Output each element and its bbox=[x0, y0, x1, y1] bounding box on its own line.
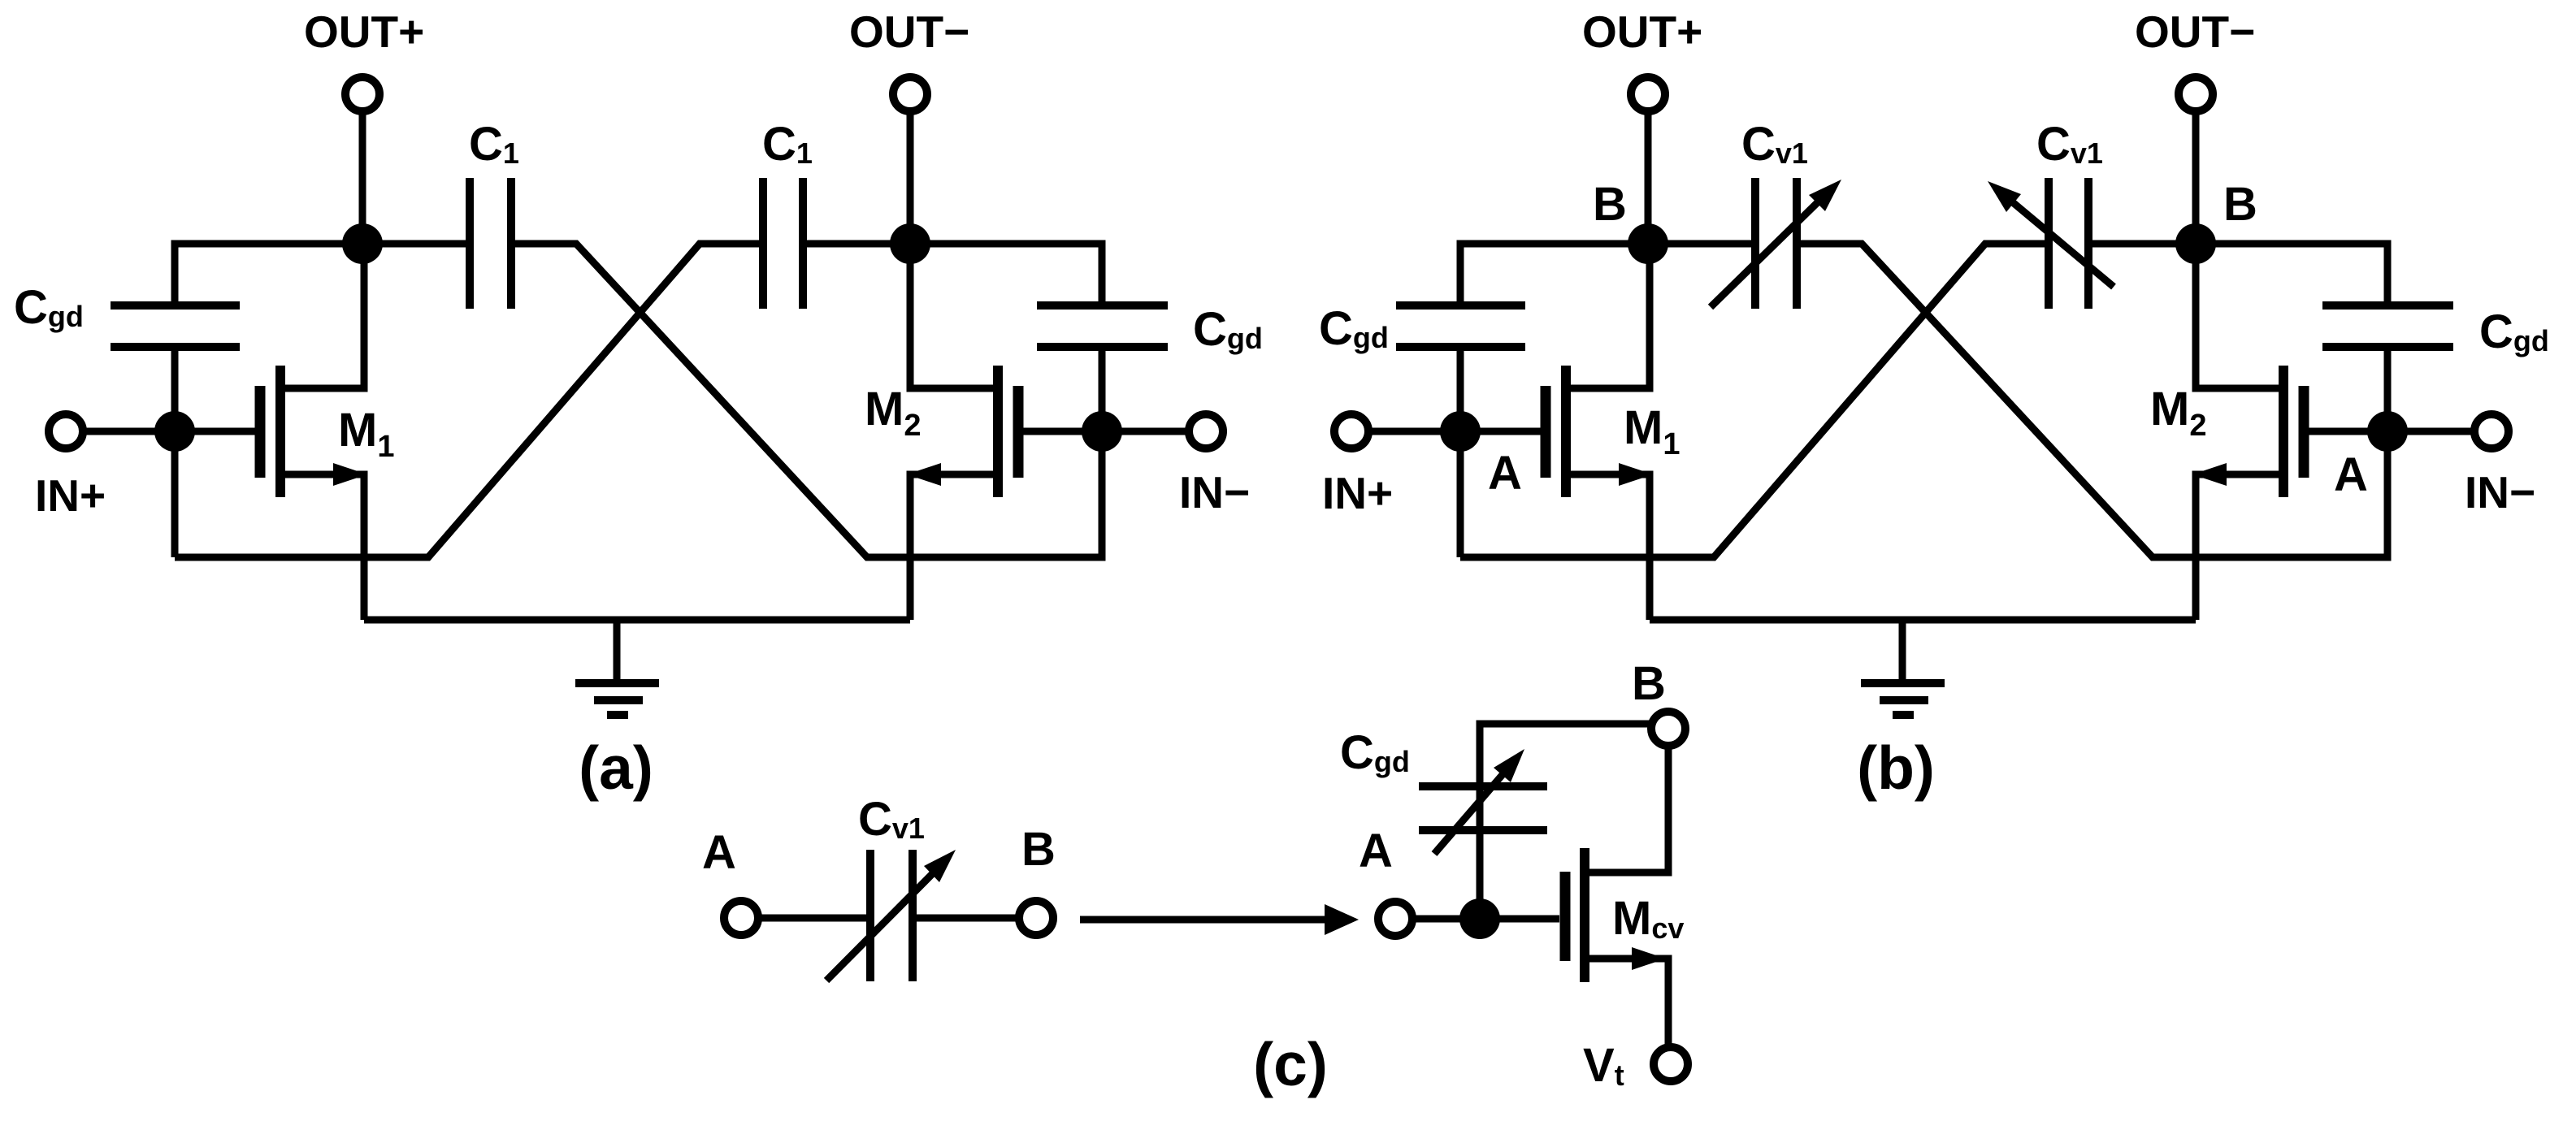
capacitor Cgd left plates bbox=[1396, 301, 1525, 310]
terminal B (varactor symbol) bbox=[1019, 901, 1053, 935]
terminal OUT- bbox=[893, 77, 927, 111]
Mcv source arrow bbox=[1632, 947, 1666, 970]
transistor M1 channel bar bbox=[275, 366, 285, 497]
capacitor C1 left plates bbox=[466, 178, 474, 309]
node IN- gate junction bbox=[1082, 411, 1122, 452]
svg-text:B: B bbox=[1632, 657, 1666, 710]
wire OUT+ stem bbox=[359, 111, 366, 244]
svg-text:A: A bbox=[702, 826, 736, 879]
M2 source arrow bbox=[907, 463, 941, 486]
wire source rail bbox=[1650, 617, 2196, 624]
wire M1 source bbox=[1571, 474, 1650, 620]
svg-text:B: B bbox=[1021, 823, 1056, 876]
terminal IN+ bbox=[49, 414, 83, 448]
terminal A (Mcv circuit) bbox=[1378, 902, 1412, 936]
terminal OUT+ bbox=[1631, 77, 1665, 111]
wire left rail lower bbox=[1457, 347, 1464, 557]
wire cross-coupling diagonal to left gate rail bbox=[175, 244, 763, 557]
svg-text:OUT+: OUT+ bbox=[304, 6, 424, 57]
wire A to gate bbox=[1412, 916, 1559, 923]
capacitor Cgd slash arrow (c) bbox=[1434, 772, 1505, 854]
transistor M1 gate bar bbox=[255, 386, 266, 478]
M1 source arrow bbox=[333, 463, 367, 486]
terminal Vt bbox=[1654, 1047, 1688, 1081]
M2 source arrow bbox=[2192, 463, 2227, 486]
node IN+ gate junction bbox=[154, 411, 195, 452]
transistor Mcv gate bar bbox=[1560, 872, 1571, 961]
wire left rail upper and top wire bbox=[1460, 244, 1755, 305]
ground bbox=[614, 620, 621, 683]
equivalence arrow bbox=[1080, 916, 1333, 924]
svg-text:IN+: IN+ bbox=[1322, 468, 1393, 518]
transistor M2 channel bar bbox=[993, 366, 1003, 497]
wire IN+ gate wire bbox=[1368, 428, 1541, 435]
svg-text:Cgd: Cgd bbox=[14, 281, 84, 334]
transistor M1 channel bar bbox=[1561, 366, 1571, 497]
ground bbox=[1899, 620, 1906, 683]
svg-text:B: B bbox=[2223, 178, 2257, 231]
svg-text:M1: M1 bbox=[1624, 401, 1680, 461]
terminal OUT+ bbox=[345, 77, 379, 111]
svg-text:C1: C1 bbox=[469, 118, 519, 171]
svg-text:Vt: Vt bbox=[1583, 1039, 1624, 1092]
wire varactor to B bbox=[913, 915, 1019, 922]
svg-text:Cgd: Cgd bbox=[1340, 726, 1410, 779]
svg-text:Mcv: Mcv bbox=[1612, 892, 1684, 945]
svg-text:OUT−: OUT− bbox=[2135, 6, 2255, 57]
wire IN+ gate wire bbox=[83, 428, 255, 435]
svg-text:Cgd: Cgd bbox=[1319, 302, 1389, 355]
svg-text:OUT−: OUT− bbox=[849, 6, 969, 57]
wire M2 drain bbox=[910, 244, 993, 388]
capacitor Cgd right plates bbox=[2322, 301, 2453, 310]
wire OUT+ stem bbox=[1645, 111, 1652, 244]
capacitor C1 right plates bbox=[759, 178, 767, 309]
wire left rail upper and top wire bbox=[175, 244, 470, 305]
terminal IN- bbox=[2474, 414, 2509, 448]
wire top middle + cross-coupling diagonal to right gate rail bbox=[511, 244, 1102, 557]
terminal B (Mcv circuit) bbox=[1651, 712, 1685, 746]
svg-text:OUT+: OUT+ bbox=[1582, 6, 1702, 57]
transistor M1 gate bar bbox=[1541, 386, 1551, 478]
svg-text:IN+: IN+ bbox=[35, 470, 106, 521]
transistor Mcv channel bar bbox=[1580, 848, 1589, 982]
wire M1 drain bbox=[1571, 244, 1650, 388]
M1 source arrow bbox=[1619, 463, 1653, 486]
varactor Cv1 left slash arrow bbox=[1711, 198, 1822, 307]
node IN- gate junction bbox=[2367, 411, 2408, 452]
svg-text:(b): (b) bbox=[1857, 734, 1935, 802]
svg-text:A: A bbox=[1488, 447, 1522, 500]
node OUT+ junction bbox=[342, 223, 383, 264]
svg-text:(c): (c) bbox=[1253, 1030, 1328, 1098]
wire right rail upper bbox=[2088, 244, 2387, 305]
varactor Cv1 slash arrow (c) bbox=[826, 870, 936, 981]
terminal OUT- bbox=[2179, 77, 2213, 111]
transistor M2 channel bar bbox=[2279, 366, 2288, 497]
svg-text:M1: M1 bbox=[338, 404, 394, 464]
terminal A (varactor symbol) bbox=[724, 901, 758, 935]
svg-text:Cv1: Cv1 bbox=[858, 793, 925, 846]
svg-text:Cv1: Cv1 bbox=[1741, 118, 1808, 171]
wire left rail lower bbox=[171, 347, 179, 557]
svg-text:A: A bbox=[2334, 448, 2368, 501]
capacitor Cv1 right plates bbox=[2045, 178, 2053, 309]
wire right rail upper bbox=[803, 244, 1102, 305]
transistor M2 gate bar bbox=[1013, 386, 1024, 478]
svg-text:(a): (a) bbox=[579, 734, 653, 802]
wire source rail bbox=[364, 617, 910, 624]
transistor M2 gate bar bbox=[2299, 386, 2309, 478]
wire B down to drain bbox=[1589, 746, 1668, 872]
wire gate node up to B wire bbox=[1480, 724, 1651, 919]
varactor Cv1 right slash arrow bbox=[2004, 195, 2114, 287]
node OUT+ junction bbox=[1628, 223, 1668, 264]
wire IN- gate wire bbox=[1023, 428, 1189, 435]
terminal IN- bbox=[1189, 414, 1223, 448]
wire OUT- stem bbox=[907, 111, 914, 244]
terminal IN+ bbox=[1334, 414, 1368, 448]
wire M1 source bbox=[285, 474, 364, 620]
svg-text:Cgd: Cgd bbox=[1193, 303, 1263, 356]
node gate junction (c) bbox=[1459, 898, 1500, 939]
wire Mcv source to Vt bbox=[1589, 959, 1668, 1047]
svg-text:IN−: IN− bbox=[1179, 467, 1250, 517]
wire OUT- stem bbox=[2192, 111, 2200, 244]
wire cross-coupling diagonal to left gate rail bbox=[1460, 244, 2049, 557]
capacitor Cgd plates (c) bbox=[1419, 782, 1547, 790]
svg-text:Cv1: Cv1 bbox=[2036, 118, 2103, 171]
wire M2 source bbox=[2196, 474, 2279, 620]
svg-text:Cgd: Cgd bbox=[2479, 305, 2549, 358]
node OUT- junction bbox=[2175, 223, 2216, 264]
wire M1 drain bbox=[285, 244, 364, 388]
wire M2 source bbox=[910, 474, 993, 620]
wire A to varactor bbox=[758, 915, 870, 922]
capacitor Cgd right plates bbox=[1037, 301, 1168, 310]
wire top middle + cross-coupling diagonal to right gate rail bbox=[1797, 244, 2387, 557]
node IN+ gate junction bbox=[1440, 411, 1481, 452]
varactor Cv1 plates (c) bbox=[866, 850, 874, 981]
node OUT- junction bbox=[890, 223, 930, 264]
capacitor Cgd left plates bbox=[111, 301, 240, 310]
svg-text:C1: C1 bbox=[762, 118, 813, 171]
svg-text:A: A bbox=[1359, 825, 1393, 877]
svg-text:B: B bbox=[1593, 178, 1627, 231]
svg-text:IN−: IN− bbox=[2465, 467, 2535, 517]
wire M2 drain bbox=[2196, 244, 2279, 388]
wire IN- gate wire bbox=[2309, 428, 2474, 435]
capacitor Cv1 left plates bbox=[1751, 178, 1759, 309]
